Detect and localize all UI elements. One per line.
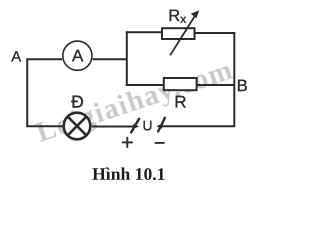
svg-text:U: U [143, 118, 153, 133]
svg-text:A: A [72, 46, 84, 65]
svg-text:Hình 10.1: Hình 10.1 [92, 164, 165, 184]
svg-text:Đ: Đ [71, 92, 84, 112]
svg-text:B: B [237, 76, 248, 95]
svg-text:A: A [11, 48, 21, 65]
svg-text:R: R [174, 92, 186, 111]
